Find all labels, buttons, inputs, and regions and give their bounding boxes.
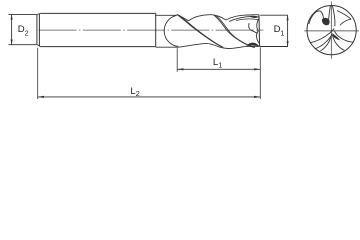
end view tooth face lower-left line (310, 29, 334, 43)
tip face ear arc (249, 23, 258, 33)
end view center dark blob (322, 18, 330, 25)
L1/L2 extension line right (259, 47, 261, 99)
bottom silhouette scallop 2 (220, 46, 246, 48)
end view crosshair horizontal (304, 30, 359, 32)
helix land S-curve A line 1 (177, 15, 222, 47)
D2 arrow down (11, 40, 13, 45)
svg-text:1: 1 (280, 28, 284, 37)
D2 arrow up (11, 14, 13, 19)
end view crosshair vertical (330, 2, 332, 59)
end view fin arc bottom (320, 37, 330, 51)
helix land S-curve B line 1 (214, 15, 254, 47)
svg-text:2: 2 (136, 89, 140, 98)
L2 arrow right (254, 96, 260, 98)
dark wedge near tip top (250, 16, 259, 18)
label D2 (18, 24, 285, 98)
L2 arrow left (38, 96, 44, 98)
bottom silhouette to tip corner (246, 45, 260, 47)
flute crest lines converging to tip top (229, 17, 259, 22)
shank/neck step line (155, 13, 157, 46)
shank chamfer diagonal top (37, 13, 41, 14)
shank chamfer ring line (38, 14, 40, 47)
L1 arrow right (254, 68, 260, 70)
end view tooth heel lower-left line (315, 33, 333, 49)
flute crest peak at runout (176, 14, 178, 17)
D1 arrow up (287, 15, 289, 20)
shank chamfer diagonal bottom (37, 45, 41, 47)
helix land S-curve B line 2 (216, 16, 255, 48)
end view tooth face lower-right line (334, 31, 353, 43)
neck top edge (156, 14, 177, 16)
tip end teeth curve lower (257, 31, 260, 44)
shank end face line (36, 15, 38, 45)
tip end teeth curve upper (257, 18, 259, 31)
L2 extension line left (37, 48, 39, 99)
bottom silhouette scallop 1 (178, 43, 220, 47)
D1 arrow down (287, 41, 289, 46)
end view fin inner arc right (340, 19, 351, 25)
end view tooth heel top-left line (328, 6, 330, 25)
centerline (39, 29, 264, 31)
D1 extension line bottom (260, 46, 288, 48)
top silhouette dome 2 (226, 15, 259, 20)
end view tooth face top-right line (332, 6, 335, 27)
flute runout arc (164, 15, 178, 46)
helix land S-curve A line 2 (179, 15, 223, 47)
L2 dimension line (38, 96, 261, 98)
L1 dimension line (177, 68, 260, 70)
end view tooth heel lower-right line (332, 35, 344, 51)
dark wedge near tip bottom (246, 43, 259, 47)
neck bottom edge (156, 46, 178, 48)
D2 extension line top (9, 13, 37, 15)
end view lower dark wedge (333, 34, 340, 41)
shank bottom edge (41, 46, 156, 48)
tip end face line (258, 15, 261, 47)
end view fin arc top-left (309, 11, 324, 24)
top silhouette valley arc 1 (178, 15, 188, 21)
D2 dimension line (11, 14, 13, 44)
D1 dimension line (287, 15, 289, 46)
L1 extension line left (176, 48, 178, 72)
D2 extension line bottom (9, 44, 37, 46)
svg-text:2: 2 (25, 28, 29, 37)
L1 arrow left (177, 68, 183, 70)
shank top edge (41, 12, 156, 14)
end view circle (307, 6, 356, 55)
svg-text:1: 1 (218, 61, 222, 70)
D1 extension line top (260, 14, 288, 16)
end view fin arc right (337, 11, 351, 20)
top silhouette dome 1 (189, 15, 227, 21)
